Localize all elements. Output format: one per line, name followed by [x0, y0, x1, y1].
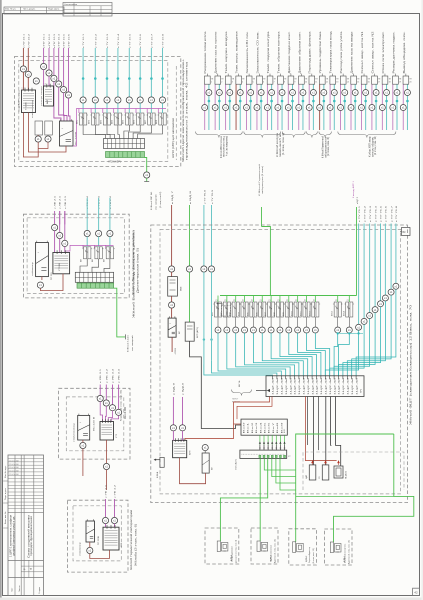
- dashed sub-box around C6: [303, 452, 404, 490]
- svg-text:К Жёлоб Герметичной: К Жёлоб Герметичной: [322, 135, 325, 158]
- channel 4 terminals: [237, 90, 243, 96]
- svg-text:КМ12: КМ12: [309, 311, 311, 316]
- svg-text:Вх3: Вх3: [256, 423, 258, 434]
- channel 19 terminals: [394, 90, 400, 96]
- block3 magenta wires and terminals: [99, 385, 101, 396]
- big relay terminal row: [217, 317, 219, 327]
- svg-text:ПС 220: ПС 220: [51, 272, 53, 280]
- svg-text:Вх6: Вх6: [269, 423, 271, 434]
- channel 20 designator box: [405, 74, 407, 76]
- channel 1 wires: [204, 85, 206, 105]
- channel group brace 4: [306, 132, 317, 138]
- svg-text:Резерв датчика подкл.: Резерв датчика подкл.: [393, 31, 395, 74]
- block ShU10 third dashed vertical: [175, 66, 177, 160]
- relay K14: [348, 296, 350, 303]
- channel 13 designator box: [332, 74, 334, 76]
- svg-text:1Ц2.4в: 1Ц2.4в: [334, 378, 336, 395]
- svg-text:КМ4: КМ4: [239, 312, 241, 316]
- component BP2: [202, 453, 209, 473]
- teal wire fan left to XP1: [204, 365, 273, 376]
- svg-text:К убор ХВП авар.: К убор ХВП авар.: [370, 136, 372, 157]
- title block subgrid: [21, 565, 43, 567]
- output box 3 wire: [295, 528, 297, 542]
- block2 connector: [53, 253, 70, 274]
- output box 2 dashed boundary: [251, 528, 278, 564]
- channel 14 wires: [340, 85, 342, 105]
- svg-text:3: 3: [232, 81, 233, 83]
- block2 green strip: [77, 283, 114, 288]
- svg-text:Жёлоб АВК: Жёлоб АВК: [124, 406, 127, 419]
- svg-text:Адаптер (2 этаж, пом. 12): Адаптер (2 этаж, пом. 12): [274, 539, 277, 563]
- channel 9 designator box: [290, 74, 292, 76]
- svg-text:Температура газа вход: Температура газа вход: [331, 30, 333, 73]
- component IVE: [168, 277, 178, 297]
- channel 4 wires: [235, 85, 237, 105]
- svg-text:к УВ 3.1: к УВ 3.1: [100, 368, 102, 383]
- channel 8 wires: [277, 85, 279, 105]
- output box 3 dashed boundary: [289, 529, 317, 565]
- relay K6: [261, 296, 263, 303]
- block4 inner dashed boundary: [73, 506, 121, 561]
- block2 red loop: [41, 277, 43, 280]
- block2 magenta terminals diagonal: [54, 223, 56, 225]
- svg-text:к ЛВ 2.1: к ЛВ 2.1: [55, 195, 57, 209]
- relay K5: [252, 296, 254, 303]
- svg-text:ХТ1 ВВ: ХТ1 ВВ: [26, 102, 28, 110]
- block2 outer dashed boundary: [23, 214, 129, 298]
- KIP connector bottom-left of big box: [173, 440, 187, 457]
- svg-text:Р1: Р1: [277, 300, 279, 302]
- svg-text:к ТУ 10.6: к ТУ 10.6: [140, 33, 142, 48]
- block2 terminal strip: [75, 272, 113, 282]
- block4 magenta wires: [105, 499, 107, 517]
- block3 outer dashed boundary: [59, 388, 130, 459]
- svg-text:В Жёлоб ХВП №1: В Жёлоб ХВП №1: [150, 191, 153, 210]
- svg-text:БП: БП: [212, 467, 214, 470]
- magenta bus over relays block1: [73, 109, 166, 147]
- svg-text:КМ10: КМ10: [292, 311, 294, 316]
- svg-text:К Жёлоб Герметичной: К Жёлоб Герметичной: [258, 163, 261, 196]
- channel group brace 3: [282, 132, 305, 138]
- svg-text:Лист. докум.: Лист. докум.: [23, 9, 36, 11]
- svg-text:к ЛУ 10.2: к ЛУ 10.2: [28, 33, 30, 48]
- channel 5 terminals: [248, 90, 254, 96]
- svg-text:1Ц2.4в: 1Ц2.4в: [339, 378, 341, 395]
- svg-text:к ТУ 10.8: к ТУ 10.8: [163, 33, 165, 48]
- connector ShU1 to XT green-black wires: [259, 435, 261, 444]
- channel 6 terminals: [258, 90, 264, 96]
- XP1 bottom black wires: [307, 397, 309, 446]
- svg-text:8: 8: [284, 81, 285, 83]
- svg-text:КМ5: КМ5: [247, 312, 249, 316]
- svg-text:ГА (АСУ): ГА (АСУ): [345, 471, 348, 479]
- svg-text:к ТУ 10.7: к ТУ 10.7: [151, 33, 153, 48]
- svg-text:~: ~: [62, 126, 64, 130]
- channel 2 terminals: [216, 90, 222, 96]
- terminal X3: [33, 78, 39, 84]
- svg-text:4 шт. (по испарению): 4 шт. (по испарению): [226, 136, 228, 156]
- teal junction line with dots: [338, 332, 363, 334]
- svg-text:Разрежение топки котла: Разрежение топки котла: [205, 30, 207, 73]
- channel 17 wires: [371, 85, 373, 105]
- svg-text:к ЛУ 10.1: к ЛУ 10.1: [23, 33, 25, 48]
- corner component VK: [402, 228, 411, 236]
- channel 3 terminals: [227, 90, 233, 96]
- svg-text:Вх4: Вх4: [260, 423, 262, 434]
- svg-text:к ТУ 10.4: к ТУ 10.4: [118, 33, 120, 48]
- svg-text:КМ1: КМ1: [212, 312, 214, 316]
- svg-text:Р1: Р1: [313, 300, 315, 302]
- svg-text:ПС 220 В: ПС 220 В: [94, 416, 96, 431]
- block1 cyan sensor wires: [82, 48, 84, 97]
- approval table: [63, 3, 112, 17]
- channel 15 terminals: [352, 90, 358, 96]
- XT green bottom pins: [259, 455, 261, 457]
- svg-text:ШУ10 (АВР) щит автоматики: ШУ10 (АВР) щит автоматики: [172, 117, 175, 158]
- svg-text:Р1: Р1: [304, 300, 306, 302]
- component KIP: [185, 322, 194, 341]
- svg-text:Сигнал авар. котла N1: Сигнал авар. котла N1: [362, 30, 364, 73]
- svg-text:1 ШРП 1 котельная млн. шкафная: 1 ШРП 1 котельная млн. шкафная: [10, 514, 13, 557]
- svg-text:Р1: Р1: [242, 300, 244, 302]
- component BP1: [168, 318, 176, 337]
- revision table top-left: [4, 7, 64, 14]
- svg-text:1Ц2.4в: 1Ц2.4в: [326, 378, 328, 395]
- svg-text:Давление газа на горелке: Давление газа на горелке: [216, 30, 218, 73]
- svg-text:1Ц2.4в: 1Ц2.4в: [286, 378, 288, 395]
- svg-text:к ПУ 10.4: к ПУ 10.4: [59, 33, 61, 48]
- C6 component R2: [322, 465, 329, 480]
- svg-text:к ПУ 10.2: к ПУ 10.2: [49, 33, 51, 48]
- svg-text:Общий диапазон: Общий диапазон: [230, 546, 233, 562]
- channel 16 terminals: [363, 90, 369, 96]
- svg-text:датчиков (1 этаж, пом. 4): датчиков (1 этаж, пом. 4): [235, 540, 237, 563]
- relay row block1: [79, 113, 82, 125]
- svg-text:1Ц2.4в: 1Ц2.4в: [356, 378, 358, 395]
- block2 power supply: [36, 243, 49, 277]
- svg-text:к ТУ 76.4: к ТУ 76.4: [375, 205, 377, 222]
- svg-text:Жёлоб Герметичной лаборатории: Жёлоб Герметичной лаборатории: [130, 509, 133, 570]
- right diagonal cyan wires: [358, 224, 360, 325]
- svg-text:к ТУ 76.6: к ТУ 76.6: [386, 205, 388, 222]
- svg-text:Вх7: Вх7: [273, 423, 275, 434]
- svg-text:13: 13: [336, 81, 338, 83]
- svg-text:к ВД10: к ВД10: [183, 382, 185, 395]
- svg-text:~: ~: [169, 321, 171, 325]
- channel 1 designator box: [206, 74, 208, 76]
- connector B block1: [44, 86, 54, 106]
- channel 11 wires: [308, 85, 310, 105]
- terminal X18: [202, 445, 208, 451]
- green riser box3: [296, 434, 394, 529]
- block2 cyan terminals: [84, 230, 90, 236]
- svg-text:1 2: 1 2: [44, 84, 46, 86]
- svg-text:12.04 кв АВ: 12.04 кв АВ: [9, 463, 19, 466]
- svg-text:лаборатории котлов: лаборатории котлов: [325, 136, 327, 158]
- svg-text:стабилизатор: стабилизатор: [74, 422, 76, 442]
- output box 1 device: [217, 541, 220, 552]
- terminal X5: [45, 136, 51, 142]
- svg-text:Темп. внутр. помещения: Темп. внутр. помещения: [237, 30, 239, 73]
- right diagonal terminal row: [356, 324, 362, 330]
- svg-text:Р1: Р1: [216, 300, 218, 302]
- svg-text:Загазованность СН4 пом.: Загазованность СН4 пом.: [247, 31, 249, 74]
- svg-text:Р1: Р1: [224, 300, 226, 302]
- teal wire fan right to XP1: [325, 330, 358, 376]
- channel 7 designator box: [269, 74, 271, 76]
- svg-text:КМ3: КМ3: [230, 312, 232, 316]
- channel 18 designator box: [384, 74, 386, 76]
- terminal strip XT20 block1: [104, 139, 145, 149]
- terminal X8: [80, 442, 86, 448]
- svg-text:19: 19: [399, 81, 401, 83]
- svg-text:1Ц2.4в: 1Ц2.4в: [308, 378, 310, 395]
- svg-text:отм. смещений: отм. смещений: [155, 194, 158, 210]
- channel 14 designator box: [342, 74, 344, 76]
- svg-text:а б в: а б в: [22, 88, 26, 90]
- svg-text:Темп. наружн. воздуха: Темп. наружн. воздуха: [226, 30, 228, 73]
- output box 3 device: [293, 542, 296, 553]
- black wire from KIP: [190, 341, 241, 428]
- green right side drop: [334, 434, 414, 529]
- svg-text:Давление газа на вводе: Давление газа на вводе: [352, 30, 354, 73]
- terminal X15: [186, 266, 192, 272]
- svg-text:14: 14: [347, 81, 349, 83]
- svg-text:Схема соединений внешних: Схема соединений внешних: [27, 514, 30, 558]
- svg-text:КМ7: КМ7: [265, 312, 267, 316]
- block3 connector: [100, 422, 114, 441]
- brace ShU label: [232, 390, 252, 396]
- svg-text:Жёлоба (3 этаж, пом. 6): Жёлоба (3 этаж, пом. 6): [136, 524, 138, 566]
- svg-text:Р1: Р1: [269, 300, 271, 302]
- svg-text:Горелки смесевые: Горелки смесевые: [271, 544, 273, 562]
- relay pair left block1: [35, 121, 43, 135]
- channel 20 terminals: [404, 90, 410, 96]
- svg-text:к ТУ 76.8: к ТУ 76.8: [204, 189, 206, 204]
- svg-text:~220 В: ~220 В: [175, 347, 177, 355]
- output box 2 wire: [259, 528, 261, 542]
- svg-text:1Ц2.4в: 1Ц2.4в: [330, 378, 332, 395]
- svg-text:1Ц2.4в: 1Ц2.4в: [312, 378, 314, 395]
- svg-text:Взам. инв. №: Взам. инв. №: [4, 511, 7, 524]
- terminal row diagonal block1: [41, 63, 47, 69]
- block2 relay to strip wires: [80, 259, 87, 273]
- svg-text:7: 7: [274, 81, 275, 83]
- svg-text:1: 1: [211, 81, 212, 83]
- svg-text:Подп. Дата: Подп. Дата: [48, 9, 60, 11]
- svg-text:отм. смещений: отм. смещений: [131, 335, 134, 351]
- svg-text:к ЛВ 2.1: к ЛВ 2.1: [65, 195, 67, 209]
- svg-text:к ТУ 76.2: к ТУ 76.2: [364, 205, 366, 222]
- connector XP1: [266, 376, 364, 397]
- svg-text:к УВ 3.3: к УВ 3.3: [113, 368, 115, 383]
- channel 5 designator box: [248, 74, 250, 76]
- svg-text:Инв. № подл.: Инв. № подл.: [4, 465, 7, 478]
- svg-text:мелкоклинового смещ.: мелкоклинового смещ.: [224, 136, 226, 157]
- channel 13 terminals: [331, 90, 337, 96]
- green bus over relay row: [220, 295, 357, 297]
- terminal X2: [25, 71, 31, 77]
- svg-text:~: ~: [80, 420, 82, 424]
- svg-text:Диспетчерская (пом. 5): Диспетчерская (пом. 5): [138, 248, 140, 293]
- svg-text:6: 6: [263, 81, 264, 83]
- svg-text:12.04 кв АВ: 12.04 кв АВ: [9, 460, 19, 463]
- svg-text:5: 5: [253, 81, 254, 83]
- svg-text:Лист: Лист: [12, 588, 14, 592]
- svg-text:1Ц2.4в: 1Ц2.4в: [299, 378, 301, 395]
- red wiring loop block1: [29, 113, 67, 153]
- svg-text:(2 этаж, пом. 12): (2 этаж, пом. 12): [313, 548, 315, 564]
- svg-text:КМ14: КМ14: [343, 311, 345, 316]
- power supply PS1 block1: [60, 121, 74, 146]
- svg-text:12: 12: [326, 81, 328, 83]
- svg-text:КМ: КМ: [92, 259, 94, 262]
- terminal X12: [87, 547, 93, 553]
- channel 7 terminals: [269, 90, 275, 96]
- svg-text:Темп. обратки контура: Темп. обратки контура: [278, 30, 280, 73]
- svg-text:лаборатории (3 этаж): лаборатории (3 этаж): [262, 166, 264, 194]
- channel 9 wires: [287, 85, 289, 105]
- channel 7 wires: [266, 85, 268, 105]
- svg-text:Вывод общедом. сигн.: Вывод общедом. сигн.: [404, 31, 406, 74]
- svg-text:КМ: КМ: [81, 259, 83, 262]
- svg-text:1Ц2.4в: 1Ц2.4в: [343, 378, 345, 395]
- svg-text:(3 этаж, пом. 6): (3 этаж, пом. 6): [328, 137, 330, 156]
- XP1 left junction: [267, 389, 270, 392]
- svg-text:10: 10: [305, 81, 307, 83]
- relay K10: [297, 296, 299, 303]
- connector A block1: [22, 90, 36, 113]
- block4 outer dashed boundary: [67, 500, 128, 572]
- svg-text:(2 этаж, пом. 10): (2 этаж, пом. 10): [375, 136, 377, 155]
- channel 12 designator box: [321, 74, 323, 76]
- block3 red wires down: [82, 440, 84, 442]
- channel 5 wires: [246, 85, 248, 105]
- sheet number box: [413, 588, 420, 595]
- svg-text:1Ц2.4в: 1Ц2.4в: [277, 378, 279, 395]
- svg-text:Р1: Р1: [295, 300, 297, 302]
- channel 14 terminals: [342, 90, 348, 96]
- green exit wire block1: [145, 158, 147, 172]
- channel 19 wires: [392, 85, 394, 105]
- svg-text:1Ц2.4в: 1Ц2.4в: [273, 378, 275, 395]
- svg-text:ИВЕ: ИВЕ: [181, 286, 183, 291]
- terminal X6: [144, 172, 150, 178]
- channel 3 wires: [225, 85, 227, 105]
- svg-text:павильонов 5 шт.: павильонов 5 шт.: [280, 133, 282, 157]
- svg-text:9: 9: [294, 81, 295, 83]
- svg-text:к ПУ 10.3: к ПУ 10.3: [54, 33, 56, 48]
- svg-text:Сигнал авар. котла N2: Сигнал авар. котла N2: [372, 30, 374, 73]
- channel 3 designator box: [227, 74, 229, 76]
- svg-text:12.04 кв АВ: 12.04 кв АВ: [9, 473, 19, 476]
- svg-text:резерв ввода: резерв ввода: [41, 84, 43, 106]
- wires relays to terminal strip block1: [83, 125, 105, 139]
- svg-text:Подп. и дата: Подп. и дата: [5, 487, 7, 500]
- svg-text:Р1: Р1: [251, 300, 253, 302]
- svg-text:1Ц2.4в: 1Ц2.4в: [295, 378, 297, 395]
- svg-text:КМ2: КМ2: [221, 312, 223, 316]
- title block grid: [8, 455, 44, 596]
- svg-text:16: 16: [368, 81, 370, 83]
- svg-text:к ТУ 10.5: к ТУ 10.5: [129, 33, 131, 48]
- relay K4: [244, 296, 246, 303]
- relay K2: [226, 296, 228, 303]
- svg-text:Р1: Р1: [347, 300, 349, 302]
- svg-text:~: ~: [87, 525, 89, 529]
- XP1 red wires to left: [185, 397, 270, 441]
- channel 2 designator box: [217, 74, 219, 76]
- svg-text:Жёлоб ФШТ (смещения Компрессор: Жёлоб ФШТ (смещения Компрессор) 12 Вика,…: [410, 304, 413, 425]
- channel 16 wires: [360, 85, 362, 105]
- block3 power supply: [78, 415, 90, 440]
- svg-text:КМ: КМ: [103, 259, 105, 262]
- magenta wires below terminals block1: [43, 70, 45, 86]
- channel 12 wires: [319, 85, 321, 105]
- svg-text:Давление подачи конт.: Давление подачи конт.: [289, 31, 291, 74]
- svg-text:Расход газа узла учёта: Расход газа узла учёта: [341, 30, 343, 73]
- svg-text:1Ц2.4в: 1Ц2.4в: [321, 378, 323, 395]
- svg-text:КМ6: КМ6: [256, 312, 258, 316]
- svg-text:Загазованность СО пом.: Загазованность СО пом.: [257, 31, 259, 74]
- block2 green exit wire: [114, 288, 126, 337]
- channel 15 wires: [350, 85, 352, 105]
- relay bracket label: [217, 303, 222, 305]
- green wires from XT down: [259, 458, 261, 528]
- svg-text:К выводу ШРП 1: К выводу ШРП 1: [353, 180, 355, 198]
- svg-text:к ПУ 10.6: к ПУ 10.6: [69, 33, 71, 48]
- svg-text:к ТУ 76.1: к ТУ 76.1: [359, 205, 361, 222]
- svg-text:К Жёлоб ХВПб отопления: К Жёлоб ХВПб отопления: [221, 135, 223, 158]
- relay K11: [306, 296, 308, 303]
- svg-text:КИП: КИП: [190, 450, 192, 455]
- svg-text:ШУ №: ШУ №: [238, 380, 241, 387]
- svg-text:Р1: Р1: [286, 300, 288, 302]
- channel 17 terminals: [373, 90, 379, 96]
- svg-text:к УВ 3.4: к УВ 3.4: [119, 368, 121, 383]
- terminal X9: [103, 463, 109, 469]
- svg-text:стабилизатор: стабилизатор: [32, 99, 34, 118]
- svg-text:к УВ 4.1: к УВ 4.1: [106, 484, 108, 498]
- svg-text:1Ц2.4в: 1Ц2.4в: [348, 378, 350, 395]
- block2 inner dashed boundary: [27, 218, 124, 294]
- block ShU10 outer dashed boundary: [15, 57, 181, 167]
- channel 2 wires: [214, 85, 216, 105]
- svg-text:сигналу общему: сигналу общему: [372, 136, 374, 157]
- svg-text:к ПУ 10.1: к ПУ 10.1: [44, 33, 46, 48]
- relay K9: [288, 296, 290, 303]
- svg-text:КМ9: КМ9: [283, 312, 285, 316]
- channel 9 terminals: [290, 90, 296, 96]
- svg-text:к ТУ 76.7: к ТУ 76.7: [391, 205, 393, 222]
- block2 magenta wires to connector: [54, 231, 56, 253]
- big box outer dashed boundary: [151, 225, 408, 503]
- svg-text:к УВ 4.2: к УВ 4.2: [115, 484, 117, 498]
- svg-text:20: 20: [409, 81, 411, 83]
- svg-text:Горелки Адаптер: Горелки Адаптер: [308, 546, 311, 563]
- output box 1 wire: [219, 528, 221, 541]
- svg-text:Вх1: Вх1: [248, 423, 250, 434]
- svg-text:1Ц2.4в: 1Ц2.4в: [304, 378, 306, 395]
- svg-text:42: 42: [414, 590, 418, 594]
- channel 6 designator box: [259, 74, 261, 76]
- svg-text:ШИНА: ШИНА: [156, 471, 159, 478]
- svg-text:к ПУ 10.5: к ПУ 10.5: [64, 33, 66, 48]
- svg-text:КМ13: КМ13: [332, 311, 334, 316]
- channel 8 terminals: [279, 90, 285, 96]
- output box 2 device: [257, 541, 260, 552]
- svg-text:Коридор (2 этаж, пом. 10): Коридор (2 этаж, пом. 10): [121, 390, 123, 421]
